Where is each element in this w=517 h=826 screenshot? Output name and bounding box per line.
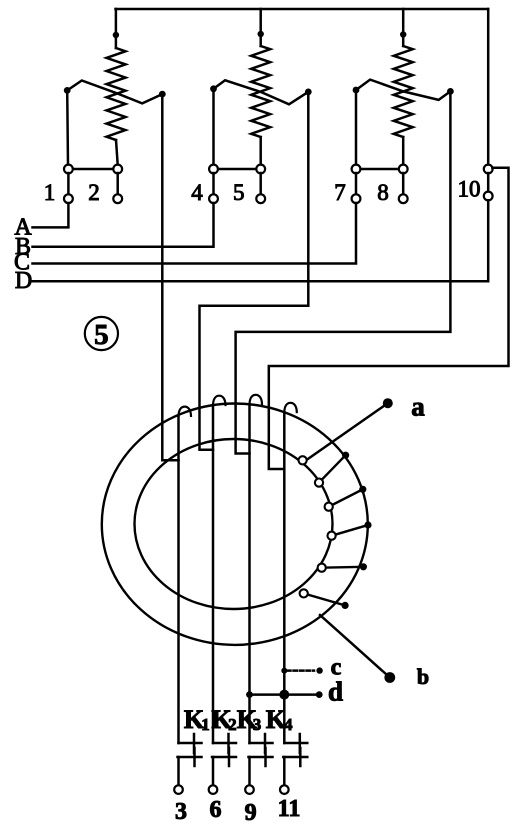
node wiper arm right junction R3 xyxy=(447,88,454,95)
wire wiper-left down to terminal xyxy=(355,90,358,165)
svg-text:2: 2 xyxy=(228,715,237,734)
secondary winding inner loop 5 xyxy=(318,564,326,572)
svg-text:5: 5 xyxy=(94,319,109,351)
node junction R1 top xyxy=(113,32,119,38)
label figure number 5 circled xyxy=(85,317,118,350)
switch K1 upper contact bar xyxy=(179,742,202,745)
wire turn 1 return down to switch K1 xyxy=(177,416,180,743)
terminal 8 lower jack xyxy=(399,194,408,203)
wire bus drop to R3 xyxy=(402,9,405,46)
switch K2 upper blade xyxy=(227,734,230,753)
svg-text:1: 1 xyxy=(201,715,210,734)
node secondary turn outer junction 6 xyxy=(342,602,349,609)
node terminal a xyxy=(383,398,393,408)
switch K2 lower contact bar xyxy=(212,756,236,759)
wire bus drop to R2 xyxy=(259,9,262,46)
turn 3 top loop over core xyxy=(250,395,263,404)
switch K4 lower blade xyxy=(299,748,302,766)
switch K2 lower blade xyxy=(228,748,231,766)
wire terminal link 4-5 xyxy=(214,168,261,171)
rheostat R3 wiper arm xyxy=(356,80,450,100)
switch K1 upper blade xyxy=(193,734,196,753)
node terminal d xyxy=(316,691,323,698)
wire switch K3 to terminal 9 xyxy=(248,757,251,785)
wire turn 3 return down to switch K3 xyxy=(248,404,251,743)
wire resistor R1 bottom stem xyxy=(116,140,118,165)
svg-text:3: 3 xyxy=(253,715,262,734)
node junction R3 top xyxy=(400,31,406,37)
node terminal b xyxy=(384,672,395,683)
svg-text:2: 2 xyxy=(88,180,100,205)
toroid core outer ellipse xyxy=(102,404,368,645)
node tap on wire 4 for c xyxy=(281,668,287,674)
wire switch K4 to terminal 11 xyxy=(283,757,286,785)
node secondary turn outer junction 2 xyxy=(342,452,349,459)
wire secondary turn chord 4 xyxy=(332,525,368,536)
wire turn 2 return down to switch K2 xyxy=(212,405,215,743)
svg-text:8: 8 xyxy=(377,180,389,205)
node wiper arm left junction R3 xyxy=(353,87,360,94)
terminal 9 jack xyxy=(245,785,254,794)
terminal 1 lower jack xyxy=(64,194,73,203)
terminal 7 upper jack xyxy=(352,165,361,174)
switch K3 lower blade xyxy=(264,748,267,766)
wire tap to terminal d xyxy=(250,693,316,696)
node wiper arm right junction R1 xyxy=(159,91,166,98)
terminal 10 lower jack xyxy=(484,192,493,201)
secondary winding inner loop 6 xyxy=(300,589,308,597)
wire wiper-left down to terminal xyxy=(212,89,215,165)
wire switch K1 to terminal 3 xyxy=(177,757,180,785)
svg-text:b: b xyxy=(417,664,429,689)
wire secondary lead to terminal a xyxy=(304,403,388,462)
wire secondary turn chord 6 xyxy=(304,593,345,605)
terminal 8 upper jack xyxy=(399,165,408,174)
terminal 7 lower jack xyxy=(352,194,361,203)
terminal 2 upper jack xyxy=(113,165,122,174)
wire terminal 4 jack stem xyxy=(212,173,215,195)
wire terminal 10 jack stem xyxy=(487,173,490,192)
wire turn 4 return down to switch K4 xyxy=(283,412,286,743)
wire terminal 10 down and across to toroid turn 4 xyxy=(269,168,509,469)
wire R2 wiper-right down and across to toroid turn 2 xyxy=(200,95,309,450)
turn 1 top loop over core xyxy=(179,407,192,416)
terminal 5 lower jack xyxy=(256,194,265,203)
switch K1 lower contact bar xyxy=(178,756,202,759)
wire R3 wiper-right down and across to toroid turn 3 xyxy=(236,95,451,454)
terminal 6 jack xyxy=(209,785,218,794)
svg-text:4: 4 xyxy=(191,180,203,205)
wire secondary turn chord 2 xyxy=(319,455,346,482)
node wiper arm left junction R2 xyxy=(210,85,217,92)
turn 4 top loop over core xyxy=(284,403,297,412)
switch K4 upper blade xyxy=(299,734,302,753)
node wiper arm left junction R1 xyxy=(64,87,71,94)
wire R1 wiper-right down to toroid turn 1 xyxy=(162,97,178,460)
wire secondary turn chord 5 xyxy=(322,566,364,569)
node wiper arm right junction R2 xyxy=(305,89,312,96)
svg-text:7: 7 xyxy=(334,180,346,205)
node secondary turn outer junction 3 xyxy=(359,486,366,493)
svg-text:11: 11 xyxy=(278,796,301,822)
wire secondary turn chord 3 xyxy=(329,489,363,506)
terminal 4 upper jack xyxy=(209,165,218,174)
wire top bus xyxy=(116,8,489,11)
wire dashed tap to terminal c xyxy=(287,669,314,672)
node secondary turn outer junction 4 xyxy=(364,521,371,528)
wire terminal link 1-2 xyxy=(68,168,117,171)
wire input A to terminal 1 xyxy=(33,203,69,227)
wire secondary lead to terminal b xyxy=(320,615,390,678)
svg-text:1: 1 xyxy=(44,180,56,205)
wire input D to terminal 10 xyxy=(33,200,489,281)
terminal 2 lower jack xyxy=(113,194,122,203)
node junction wire 4 on d line xyxy=(279,690,289,700)
wire input B to terminal 4 xyxy=(33,203,214,247)
svg-text:10: 10 xyxy=(458,177,481,202)
secondary winding inner loop 1 xyxy=(299,456,307,464)
resistor R1 (rheostat winding) xyxy=(107,48,126,140)
svg-text:4: 4 xyxy=(284,715,293,734)
wire resistor R3 bottom stem xyxy=(402,137,405,165)
svg-text:5: 5 xyxy=(233,180,245,205)
wire terminal 5 jack stem xyxy=(259,173,262,195)
resistor R2 (rheostat winding) xyxy=(251,46,270,137)
toroid core inner ellipse xyxy=(135,439,333,609)
terminal 5 upper jack xyxy=(256,165,265,174)
switch K3 lower contact bar xyxy=(249,756,273,759)
wire terminal 8 jack stem xyxy=(402,173,405,195)
switch K4 lower contact bar xyxy=(283,756,307,759)
node secondary turn outer junction 5 xyxy=(360,563,367,570)
switch K3 upper contact bar xyxy=(250,742,273,745)
wire wiper-left down to terminal xyxy=(66,90,69,164)
resistor R3 (rheostat winding) xyxy=(394,46,413,137)
wire terminal 7 jack stem xyxy=(355,173,358,195)
terminal 10 upper jack xyxy=(484,165,493,174)
svg-text:d: d xyxy=(328,677,343,707)
node terminal c xyxy=(316,667,322,673)
terminal 11 jack xyxy=(280,785,289,794)
svg-text:6: 6 xyxy=(210,797,222,823)
wire terminal link 7-8 xyxy=(356,168,403,171)
wire bus right drop to terminal 10 xyxy=(487,9,490,165)
secondary winding inner loop 3 xyxy=(325,503,333,511)
terminal 3 jack xyxy=(174,785,183,794)
svg-text:a: a xyxy=(411,392,425,422)
secondary winding inner loop 4 xyxy=(328,532,336,540)
wire switch K2 to terminal 6 xyxy=(212,757,215,785)
turn 2 top loop over core xyxy=(213,396,226,405)
wire terminal 2 jack stem xyxy=(116,173,119,195)
svg-text:3: 3 xyxy=(175,799,187,825)
wire terminal 1 jack stem xyxy=(67,173,70,195)
switch K1 lower blade xyxy=(193,748,196,766)
wire input C to terminal 7 xyxy=(33,203,357,264)
wire bus left drop to R1 xyxy=(115,9,118,48)
secondary winding inner loop 2 xyxy=(315,479,323,487)
rheostat R2 wiper arm xyxy=(214,80,309,104)
rheostat R1 wiper arm xyxy=(67,81,162,104)
terminal 1 upper jack xyxy=(64,165,73,174)
switch K3 upper blade xyxy=(264,734,267,753)
svg-text:9: 9 xyxy=(245,800,257,826)
switch K4 upper contact bar xyxy=(284,742,307,745)
node junction R2 top xyxy=(258,31,264,37)
node tap on wire 3 for d xyxy=(246,691,253,698)
wire resistor R2 bottom stem xyxy=(259,137,262,165)
svg-text:D: D xyxy=(15,268,32,294)
terminal 4 lower jack xyxy=(209,194,218,203)
switch K2 upper contact bar xyxy=(213,742,236,745)
